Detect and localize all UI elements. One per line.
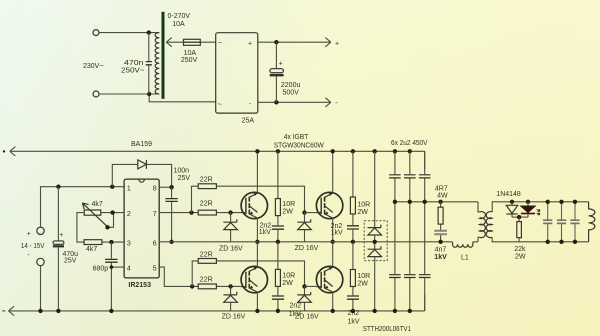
node gate top-right (302, 210, 306, 214)
node A col2 (408, 200, 412, 204)
wire diode junction (512, 216, 528, 218)
svg-text:25V: 25V (64, 258, 77, 265)
resistor 22R bottom upper (198, 259, 216, 264)
resistor 22R upper (198, 184, 216, 189)
svg-text:+: + (59, 232, 63, 239)
node 100n bottom on pin6 line (169, 240, 173, 244)
node out3 top (573, 200, 577, 204)
svg-text:~: ~ (218, 40, 222, 47)
node bank col2 top (408, 149, 412, 153)
node diode 2 top (526, 200, 530, 204)
svg-text:4k7: 4k7 (92, 201, 103, 208)
svg-text:2200u: 2200u (281, 82, 301, 89)
node 4n7 bottom (438, 240, 442, 244)
capacitor 2n2 bottom-right (347, 296, 359, 299)
node - on bus (38, 309, 42, 313)
node wiper (105, 225, 109, 229)
node - output (274, 100, 278, 104)
label dash left of bottom bus (2, 310, 5, 312)
svg-text:22R: 22R (200, 201, 213, 208)
wire 4k7 to pin 3 (102, 241, 124, 243)
svg-text:2W: 2W (515, 254, 526, 261)
resistor 22k wires (518, 217, 520, 242)
wire - terminal to ground bus (40, 266, 42, 311)
node bottom input (147, 92, 151, 96)
capacitor bank col1 (394, 151, 396, 311)
svg-text:7: 7 (153, 211, 157, 218)
svg-text:1kV: 1kV (289, 311, 301, 318)
svg-text:2n2: 2n2 (290, 302, 302, 309)
node snubber right mid (351, 240, 355, 244)
capacitor 470u wires (57, 187, 59, 311)
svg-text:2W: 2W (357, 209, 368, 216)
svg-text:10R: 10R (357, 273, 370, 280)
node A col3 (423, 200, 427, 204)
wire upper 22R to right gate (216, 186, 304, 212)
wire drain bottom-left (256, 242, 258, 267)
node out3 bottom (573, 240, 577, 244)
fuse F1 (184, 39, 201, 45)
node STTH top bus (373, 149, 377, 153)
terminal 230V bottom (93, 91, 99, 97)
node + output (274, 40, 278, 44)
wire snubber right top (352, 151, 354, 242)
svg-text:250V: 250V (181, 57, 198, 64)
wire VS midline (159, 241, 452, 243)
variac winding T1 (155, 33, 159, 94)
wire 4R7 column (440, 202, 442, 242)
wire drain bottom-right (332, 242, 334, 267)
node gate top-left (228, 210, 232, 214)
transformer secondary lead top (492, 202, 588, 212)
svg-text:-: - (335, 100, 338, 107)
wire snubber right bottom (352, 242, 354, 311)
diode LED filled (527, 202, 529, 217)
capacitor 100n wires (171, 187, 173, 242)
capacitor 2n2 bottom-left (272, 296, 284, 299)
capacitor 680p wires (110, 242, 112, 311)
wire snubber left bottom (277, 242, 279, 311)
svg-text:1: 1 (127, 185, 131, 192)
node snubber left mid (276, 240, 280, 244)
svg-text:22R: 22R (200, 177, 213, 184)
transformer secondary lead bottom (492, 237, 588, 242)
node source bottom-right (331, 309, 335, 313)
node pin 8 (169, 185, 173, 189)
resistor 4R7 4W (438, 207, 443, 224)
svg-text:2W: 2W (282, 280, 293, 287)
wire bottom upper 22R to right gate (216, 261, 304, 287)
wire VCC to diode BA159 (112, 164, 171, 187)
svg-text:680p: 680p (93, 266, 109, 273)
wire pin 5 (159, 267, 198, 286)
capacitor 2200u (270, 69, 284, 73)
svg-text:-: - (27, 252, 30, 259)
wire top bus (10, 147, 425, 169)
diode STTH lower (368, 246, 382, 256)
transformer primary lead top (478, 202, 479, 212)
node gate bottom-left (228, 284, 232, 288)
node 470u bottom (56, 309, 60, 313)
transformer secondary winding (486, 212, 492, 238)
resistor 10R 2W top-left (275, 199, 280, 216)
svg-text:4R7: 4R7 (435, 185, 448, 192)
svg-text:2W: 2W (357, 280, 368, 287)
svg-text:ZD 16V: ZD 16V (222, 314, 246, 321)
wire gate top-right (305, 212, 317, 214)
wire branch up to upper 22R (192, 186, 199, 212)
resistor 22R lower (198, 210, 216, 215)
svg-text:4W: 4W (437, 192, 448, 199)
variac core bar (162, 12, 165, 99)
node diode junction (517, 215, 521, 219)
svg-text:230V~: 230V~ (83, 63, 103, 70)
work coil (589, 202, 595, 242)
svg-text:1kV: 1kV (348, 319, 360, 326)
svg-text:25V: 25V (178, 175, 191, 182)
resistor 22k 2W (517, 222, 522, 238)
wire wiper to pin 2 (108, 213, 114, 227)
wire snubber left top (277, 151, 279, 242)
wire STTH column (374, 151, 376, 311)
capacitor 680p (105, 259, 117, 262)
svg-text:8: 8 (153, 185, 157, 192)
terminal 230V top (93, 30, 99, 36)
svg-text:25A: 25A (242, 117, 255, 124)
svg-text:10A: 10A (172, 21, 185, 28)
node pin 4 (110, 265, 114, 269)
node source bottom-left (255, 309, 259, 313)
transformer primary lead bottom (478, 237, 479, 242)
svg-text:BA159: BA159 (131, 141, 152, 148)
svg-text:10R: 10R (357, 202, 370, 209)
potentiometer 4k7 (82, 203, 107, 227)
wire - output (258, 98, 331, 107)
wire + terminal to VCC line (41, 187, 125, 227)
svg-text:470n: 470n (124, 60, 144, 67)
svg-text:+: + (279, 61, 283, 68)
wire L1 to transformer (473, 241, 478, 243)
svg-text:+: + (335, 41, 339, 48)
wire node A line (395, 201, 478, 203)
IC notch (139, 179, 145, 182)
wire source top-left (256, 218, 258, 242)
node VCC diode branch (110, 185, 114, 189)
node out1 top (546, 200, 550, 204)
node top input (147, 30, 151, 34)
node out1 bottom (546, 240, 550, 244)
wire drain top-right (332, 151, 334, 192)
capacitor out 1 (547, 202, 549, 242)
node out2 top (559, 200, 563, 204)
capacitor out 2 (561, 202, 563, 242)
node STTH bottom bus (373, 309, 377, 313)
capacitor bank col2 (409, 151, 411, 311)
svg-text:-: - (249, 101, 252, 108)
wire pin 8 (159, 186, 171, 188)
zener ZD16V top-right wires (304, 213, 306, 242)
zener ZD16V top-left wires (230, 213, 232, 242)
node source top-left (255, 240, 259, 244)
capacitor 4n7 (434, 231, 447, 234)
svg-text:100n: 100n (174, 168, 190, 175)
wire source top-right (332, 218, 334, 242)
node source top-right (331, 240, 335, 244)
STTH dashed box (364, 221, 387, 261)
capacitor 2n2 top-left (272, 226, 284, 229)
wire pin 4 to ground branch (111, 266, 124, 268)
wire top input (99, 32, 159, 34)
zener ZD16V bottom-left wires (230, 286, 232, 311)
svg-text:2W: 2W (282, 208, 293, 215)
svg-text:1N4148: 1N4148 (496, 191, 521, 198)
inductor L1 (453, 242, 473, 248)
svg-text:5: 5 (153, 266, 157, 273)
transistor IGBT bottom-left (241, 266, 267, 292)
capacitor out 3 (574, 202, 576, 242)
node drain top-left (255, 149, 259, 153)
LED arrows (537, 209, 541, 215)
svg-text:10R: 10R (282, 201, 295, 208)
resistor 10R 2W bottom-left (275, 269, 280, 286)
node bank col1 bottom (393, 309, 397, 313)
wire source bottom-right (332, 292, 334, 311)
node snubber left bottom bus (276, 309, 280, 313)
resistor 10R 2W top-right (350, 197, 355, 214)
svg-text:22R: 22R (200, 251, 213, 258)
node A 4R7 (438, 200, 442, 204)
capacitor 470n wire (148, 33, 150, 94)
zener ZD16V top-right (297, 219, 311, 229)
zener ZD16V bottom-right wires (304, 286, 306, 311)
resistor 4k7 fixed (84, 240, 102, 245)
wire drain top-left (256, 151, 258, 192)
node snubber right bottom bus (351, 309, 355, 313)
zener ZD16V top-left (223, 219, 237, 229)
svg-text:4: 4 (127, 266, 131, 273)
wire 22R to gate bottom-left (216, 285, 241, 287)
zener ZD16V bottom-right (297, 292, 311, 302)
transistor IGBT top-right (316, 192, 342, 218)
node drain top-right (331, 149, 335, 153)
svg-text:+: + (27, 231, 31, 238)
svg-text:6: 6 (153, 241, 157, 248)
node snubber right top bus (351, 149, 355, 153)
node diode 1 top (510, 200, 514, 204)
svg-text:IR2153: IR2153 (128, 282, 151, 289)
svg-text:0-270V: 0-270V (168, 13, 191, 20)
wire 22R to left gate (216, 212, 241, 214)
svg-text:250V~: 250V~ (121, 67, 145, 74)
node 680p ground (109, 309, 113, 313)
svg-text:ZD 16V: ZD 16V (295, 245, 319, 252)
transistor IGBT bottom-right (316, 266, 342, 292)
wire source bottom-left (256, 292, 258, 311)
capacitor bank col3 (424, 151, 426, 311)
wire bottom input (99, 94, 216, 102)
node snubber left top bus (276, 149, 280, 153)
variac wiper arrow (166, 38, 183, 47)
wire pot left to lower resistor (77, 213, 84, 243)
bridge rectifier 25A (216, 33, 258, 113)
node 470u top (56, 185, 60, 189)
svg-text:4x IGBT: 4x IGBT (284, 134, 309, 141)
wire pot right to pin 2 (101, 212, 124, 214)
capacitor 2n2 top-right (347, 226, 359, 229)
terminal +14V (37, 227, 44, 234)
node pin 2 (110, 210, 114, 214)
resistor 10R 2W bottom-right (350, 270, 355, 287)
capacitor 470n (146, 62, 152, 65)
capacitor 470u electrolytic (53, 241, 64, 244)
node out2 bottom (559, 240, 563, 244)
svg-text:3: 3 (127, 241, 131, 248)
svg-text:1kV: 1kV (259, 229, 271, 236)
node A col1 (393, 200, 397, 204)
resistor 22R bottom lower (198, 284, 216, 289)
wire branch up to upper 22R bottom (192, 261, 198, 287)
diode 1N4148 outline (511, 202, 513, 217)
svg-text:1kV: 1kV (434, 254, 447, 261)
svg-text:500V: 500V (283, 89, 300, 96)
IC IR2153 box (124, 179, 159, 278)
node gate bottom-right (302, 284, 306, 288)
capacitor 100n (166, 199, 178, 202)
svg-text:STGW30NC60W: STGW30NC60W (274, 143, 324, 150)
transformer primary winding (479, 212, 485, 238)
svg-text:14 - 15V: 14 - 15V (21, 243, 45, 250)
svg-text:6x 2u2 450V: 6x 2u2 450V (391, 140, 428, 147)
terminal -14V (37, 258, 44, 265)
wire + output (258, 38, 331, 47)
svg-text:4k7: 4k7 (86, 246, 97, 253)
node STTH mid (373, 240, 377, 244)
svg-text:22k: 22k (514, 246, 526, 253)
node bank col1 top (393, 149, 397, 153)
wire pin 7 (159, 212, 198, 214)
wire bottom bus (9, 295, 425, 316)
svg-text:L1: L1 (461, 255, 469, 262)
svg-text:1kV: 1kV (331, 230, 343, 237)
svg-text:4n7: 4n7 (435, 246, 447, 253)
transistor IGBT top-left (241, 192, 267, 218)
diode STTH upper (368, 225, 382, 235)
node pin 7 branch (189, 210, 193, 214)
node pin 3 (109, 240, 113, 244)
wire gate bottom-right (305, 285, 317, 287)
svg-text:ZD 16V: ZD 16V (219, 246, 243, 253)
svg-text:2: 2 (127, 211, 131, 218)
node bank col2 bottom (408, 309, 412, 313)
svg-text:+: + (248, 41, 252, 48)
diode BA159 (138, 160, 146, 169)
capacitor 2200u wires (275, 42, 277, 102)
zener ZD16V bottom-left (223, 292, 237, 302)
node pin 5 branch (190, 284, 194, 288)
label dot left of top bus (3, 150, 5, 152)
svg-text:STTH200L06TV1: STTH200L06TV1 (363, 326, 411, 333)
svg-text:22R: 22R (200, 276, 213, 283)
svg-text:~: ~ (218, 101, 222, 108)
fuse F1 wire (183, 41, 216, 43)
svg-text:10R: 10R (282, 273, 295, 280)
